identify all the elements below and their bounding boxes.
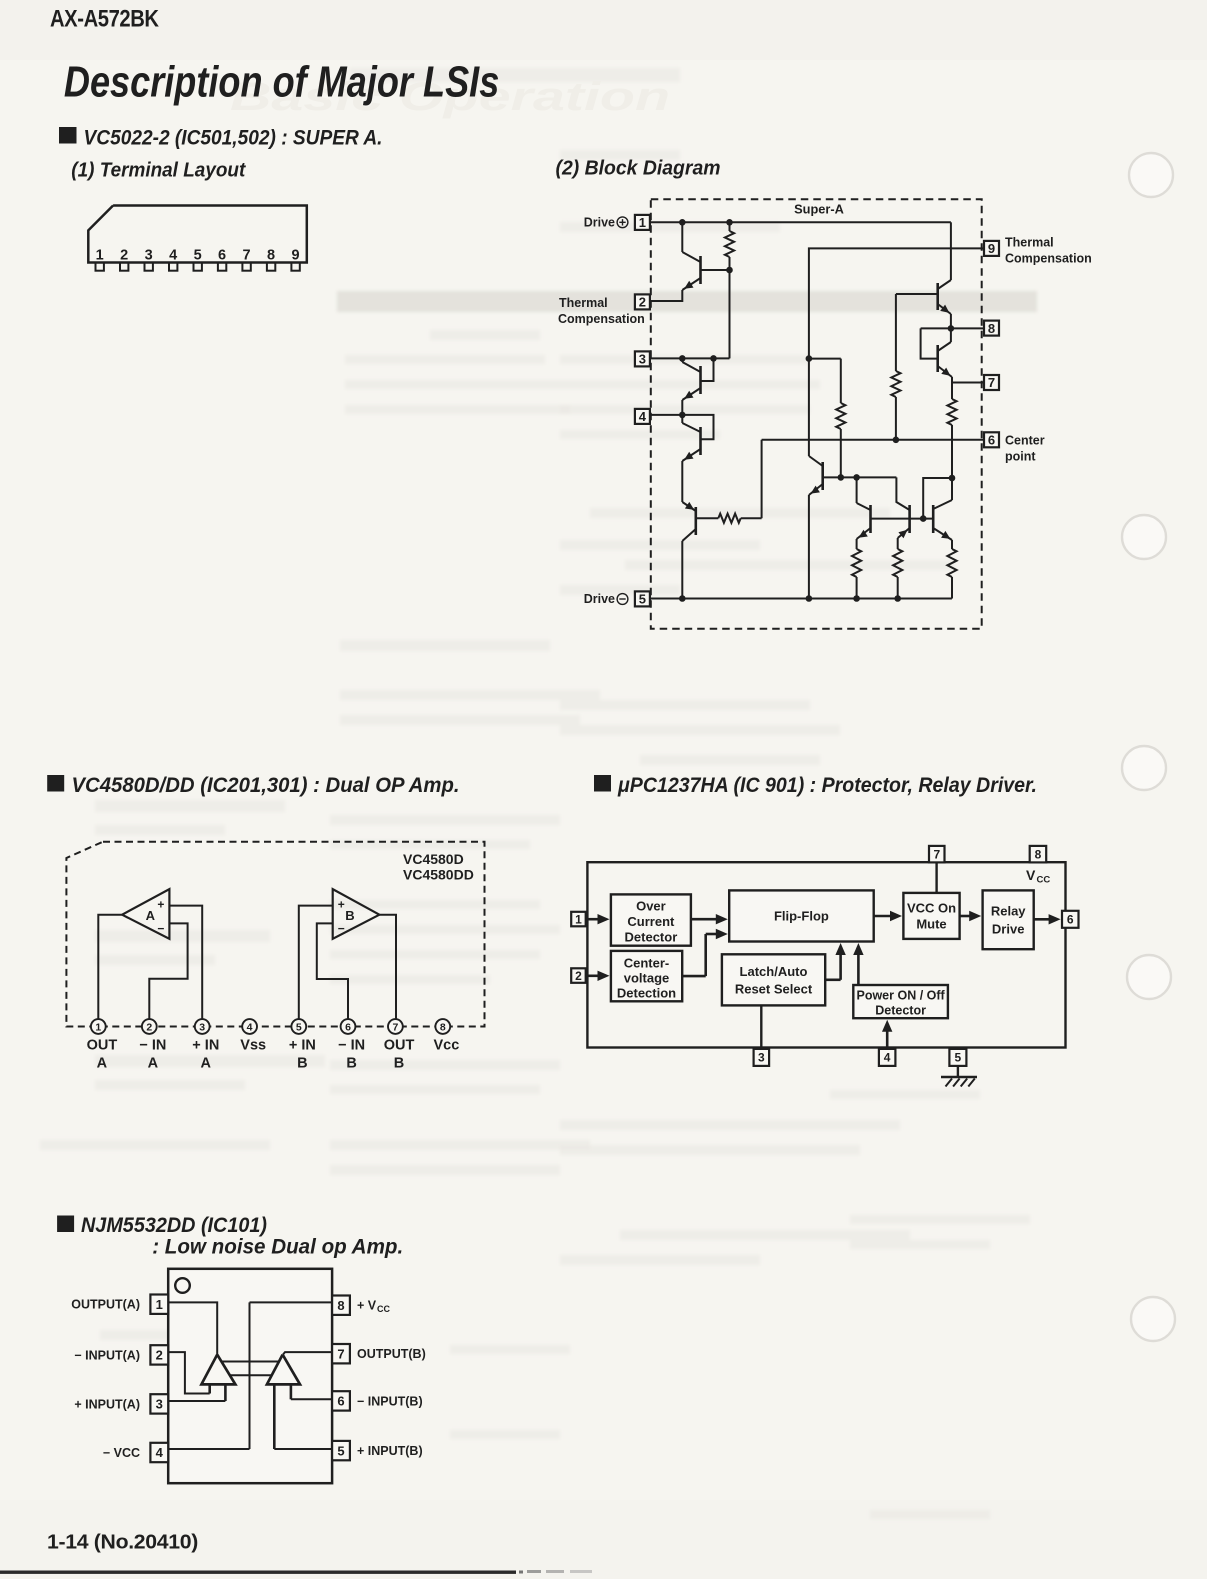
svg-text:Flip-Flop: Flip-Flop <box>774 909 829 924</box>
arrow pin2 to Center-voltage Detection <box>586 974 601 977</box>
ground symbol <box>941 1076 977 1078</box>
svg-text:Compensation: Compensation <box>1005 252 1092 266</box>
NJM5532 pin 1 box <box>150 1295 168 1314</box>
op-amp A triangle (points left) <box>122 889 169 939</box>
pin 3 lead stub (terminal layout) <box>145 263 153 271</box>
NJM5532 pin 4 box <box>150 1443 168 1462</box>
wire opA -in to pin2 <box>149 923 187 1019</box>
svg-text:VCC On: VCC On <box>907 900 956 915</box>
wire pin9 node jog to R3 <box>809 358 841 360</box>
resistor R2 (Q5 base to centre point) <box>895 294 897 371</box>
VC4580 pin 5 circle <box>291 1019 306 1034</box>
VC4580 pin 2 circle <box>142 1019 157 1034</box>
svg-text:Drive: Drive <box>992 922 1025 937</box>
pin 2 box <box>635 294 650 309</box>
arrow Center-voltage Detection to Flip-Flop <box>682 975 706 978</box>
svg-text:+: + <box>338 897 345 911</box>
svg-text:A: A <box>146 908 156 923</box>
svg-text:6: 6 <box>337 1394 344 1409</box>
svg-text:Compensation: Compensation <box>558 312 645 326</box>
svg-text:Reset Select: Reset Select <box>735 982 813 997</box>
wire pin3 <box>650 357 730 359</box>
wire pin5 to opB non-inverting input <box>274 1448 332 1450</box>
svg-text:+ V: + V <box>357 1299 377 1313</box>
svg-text:Current: Current <box>627 914 675 929</box>
wire pin8 <box>250 1301 333 1303</box>
svg-text:Power ON / Off: Power ON / Off <box>856 989 945 1003</box>
resistor R1 (pin1 to Q1 base) <box>729 222 731 231</box>
svg-text:− VCC: − VCC <box>103 1446 140 1460</box>
wire Q2 base loop to pin3 rail <box>701 358 714 381</box>
wire inter-amp bus <box>222 1361 280 1363</box>
wire opA output to pin1 <box>98 915 122 1020</box>
svg-text:OUT: OUT <box>384 1038 415 1054</box>
wire pin6 drop to R8 <box>761 440 763 518</box>
NJM5532 pin 6 box <box>332 1391 350 1410</box>
svg-text:B: B <box>346 1056 356 1072</box>
block VCC On Mute <box>903 893 959 939</box>
transistor Q3 (pin4 PNP) <box>681 415 683 423</box>
svg-text:4: 4 <box>247 1022 253 1034</box>
VC4580 pin 6 circle <box>341 1019 356 1034</box>
svg-text:NJM5532DD (IC101): NJM5532DD (IC101) <box>81 1214 267 1237</box>
svg-text:Super-A: Super-A <box>794 202 844 217</box>
transistor Q5 (upper right NPN, collector to pin1 rail) <box>936 283 939 310</box>
uPC pin 2 box <box>571 968 586 983</box>
resistor R5 (Q9 emitter) <box>856 539 858 549</box>
transistor Q9 (bottom-left NPN of output mirror) <box>856 477 858 503</box>
wire pin7 <box>952 382 984 384</box>
pin 2 lead stub (terminal layout) <box>120 263 128 271</box>
op-amp B triangle (points up) <box>267 1355 300 1385</box>
block Latch/Auto Reset Select <box>722 954 825 1005</box>
svg-text:− IN: − IN <box>338 1038 365 1054</box>
svg-text:7: 7 <box>392 1022 398 1034</box>
svg-text:8: 8 <box>337 1298 344 1313</box>
svg-text:1: 1 <box>639 215 646 230</box>
svg-text:point: point <box>1005 450 1036 464</box>
svg-text:2: 2 <box>156 1348 163 1363</box>
resistor R6 (Q8 emitter) <box>897 538 899 549</box>
transistor Q10 (bottom-right NPN, diode connected) <box>932 505 935 533</box>
pin 1 lead stub (terminal layout) <box>96 263 104 271</box>
svg-text:VC4580DD: VC4580DD <box>403 867 474 883</box>
wire Q8 collector drop <box>896 477 909 510</box>
NJM5532 pin 2 box <box>150 1345 168 1364</box>
pin 6 lead stub (terminal layout) <box>218 263 226 271</box>
pin 9 box <box>984 241 999 256</box>
pin 5 lead stub (terminal layout) <box>194 263 202 271</box>
VC4580 pin 4 circle <box>242 1019 257 1034</box>
VC4580 pin 1 circle <box>91 1019 106 1034</box>
svg-text:voltage: voltage <box>624 970 670 985</box>
uPC pin 7 box <box>929 846 945 863</box>
svg-text:AX-A572BK: AX-A572BK <box>50 6 159 33</box>
uPC pin 8 box <box>1030 846 1047 863</box>
wire diode tie jog <box>923 478 952 519</box>
wire opB -in to pin6 <box>317 923 348 1019</box>
wire opB output to pin7 <box>379 915 396 1020</box>
arrow Power ON/Off Detector to Flip-Flop <box>857 950 860 985</box>
svg-text:6: 6 <box>988 433 995 448</box>
op-amp B triangle (points right) <box>333 889 380 939</box>
wire pin5 bottom rail <box>650 598 952 600</box>
svg-text:V: V <box>1026 867 1036 883</box>
bottom scan bar <box>0 1571 516 1574</box>
svg-text:Drive: Drive <box>584 592 615 606</box>
VC4580 dashed package outline <box>66 842 484 1027</box>
svg-text:Thermal: Thermal <box>559 296 608 310</box>
wire Q7 base rail <box>823 476 897 478</box>
block Power ON/Off Detector <box>853 985 948 1018</box>
pin 8 lead stub (terminal layout) <box>267 263 275 271</box>
svg-text:3: 3 <box>156 1397 163 1412</box>
block Center-voltage Detection <box>611 951 682 1001</box>
block Relay Drive <box>983 890 1034 949</box>
NJM5532 pin 8 box <box>332 1296 350 1315</box>
svg-text:Vss: Vss <box>240 1038 266 1054</box>
wire Q1 base <box>701 269 730 271</box>
svg-text:Detector: Detector <box>625 930 678 945</box>
svg-text:2: 2 <box>575 969 582 983</box>
svg-text:4: 4 <box>156 1445 164 1460</box>
svg-text:+ INPUT(A): + INPUT(A) <box>74 1397 140 1411</box>
svg-text:5: 5 <box>296 1022 302 1034</box>
svg-text:6: 6 <box>1067 913 1074 927</box>
wire pin1 top rail <box>650 221 951 223</box>
svg-text:Description of Major LSIs: Description of Major LSIs <box>64 59 499 107</box>
arrow Relay Drive to pin 6 <box>1034 918 1052 921</box>
svg-text:1: 1 <box>156 1297 163 1312</box>
wire pin4 <box>650 414 683 416</box>
svg-text:7: 7 <box>243 248 251 264</box>
pin 4 lead stub (terminal layout) <box>169 263 177 271</box>
svg-text:A: A <box>148 1056 159 1072</box>
svg-text:Relay: Relay <box>991 904 1026 919</box>
svg-text:−: − <box>157 921 164 935</box>
svg-text:3: 3 <box>758 1051 765 1065</box>
wire opB +in to pin5 <box>299 906 333 1020</box>
resistor R3 (pin9 branch) <box>840 359 842 403</box>
svg-text:6: 6 <box>345 1022 351 1034</box>
wire pin2 <box>650 290 683 301</box>
wire pin3 to Latch/Auto Reset Select <box>760 1005 762 1049</box>
wire opA +in to pin3 <box>169 906 202 1020</box>
svg-text:Latch/Auto: Latch/Auto <box>740 964 808 979</box>
Super-A block dashed boundary <box>651 199 982 629</box>
svg-text:9: 9 <box>292 248 300 264</box>
svg-text:CC: CC <box>377 1304 390 1314</box>
uPC pin 4 box <box>879 1049 896 1066</box>
svg-text:(2) Block Diagram: (2) Block Diagram <box>556 157 721 180</box>
pin 7 box <box>984 375 999 390</box>
NJM5532 pin 5 box <box>332 1441 350 1460</box>
svg-text:Vcc: Vcc <box>433 1038 459 1054</box>
svg-text:2: 2 <box>120 248 128 264</box>
svg-text:6: 6 <box>218 248 226 264</box>
svg-text:+: + <box>157 897 164 911</box>
svg-text:OUTPUT(A): OUTPUT(A) <box>71 1298 140 1312</box>
svg-text:3: 3 <box>199 1022 205 1034</box>
svg-text:Center: Center <box>1005 434 1045 448</box>
wire pin8 <box>921 327 984 329</box>
svg-text:VC5022-2 (IC501,502) : SUPER A: VC5022-2 (IC501,502) : SUPER A. <box>84 127 383 150</box>
svg-text:5: 5 <box>639 592 646 607</box>
svg-text:A: A <box>201 1056 212 1072</box>
NJM5532 pin 3 box <box>150 1394 168 1413</box>
svg-text:7: 7 <box>933 848 940 862</box>
svg-text:: Low noise Dual op Amp.: : Low noise Dual op Amp. <box>152 1236 403 1259</box>
wire output mirror base rail <box>871 518 934 520</box>
svg-text:7: 7 <box>337 1346 344 1361</box>
NJM5532 pin 7 box <box>332 1344 350 1363</box>
opB input legs <box>273 1384 276 1449</box>
svg-text:2: 2 <box>146 1022 152 1034</box>
pin 9 lead stub (terminal layout) <box>291 263 299 271</box>
svg-text:1: 1 <box>575 912 582 926</box>
svg-text:− INPUT(A): − INPUT(A) <box>74 1348 140 1362</box>
svg-text:− IN: − IN <box>139 1038 166 1054</box>
svg-text:1: 1 <box>95 1022 101 1034</box>
svg-text:Detection: Detection <box>617 985 676 1000</box>
resistor R4 (pin7 node to lower node) <box>951 383 953 400</box>
transistor Q7 (tall left NPN, collector to pin9) <box>808 359 810 456</box>
uPC1237 outer box <box>587 862 1065 1047</box>
svg-text:A: A <box>97 1056 108 1072</box>
resistor R7 (Q10 emitter) <box>951 540 953 549</box>
svg-text:8: 8 <box>267 248 275 264</box>
wire pin3 to opA non-inverting input <box>168 1400 225 1402</box>
svg-text:B: B <box>345 908 354 923</box>
arrow pin4 to Power ON/Off Detector <box>886 1026 889 1049</box>
junction dots <box>679 219 686 226</box>
svg-text:B: B <box>394 1056 404 1072</box>
svg-text:4: 4 <box>169 248 177 264</box>
svg-text:CC: CC <box>1037 875 1051 886</box>
uPC pin 6 box <box>1062 911 1079 928</box>
wire Q1-base node down to pin3 rail <box>729 270 731 358</box>
svg-text:Thermal: Thermal <box>1005 236 1054 250</box>
wire pin1 to opA output <box>168 1302 217 1354</box>
svg-text:4: 4 <box>884 1051 891 1065</box>
pin 1 box <box>635 215 650 230</box>
wire Q3 base loop to pin4 rail <box>682 415 713 439</box>
svg-text:VC4580D: VC4580D <box>403 851 464 867</box>
svg-text:Mute: Mute <box>916 916 946 931</box>
resistor R8 (Q4 base) <box>696 517 719 519</box>
transistor Q1 (pins1/2/3 PNP) <box>681 222 683 252</box>
wire pin2 to opA inverting input <box>168 1352 210 1393</box>
wire pin4 <box>168 1448 249 1450</box>
arrow Flip-Flop to VCC On Mute <box>874 915 893 918</box>
pin 5 box <box>635 591 650 606</box>
block Over Current Detector <box>611 894 691 945</box>
svg-text:5: 5 <box>337 1443 344 1458</box>
svg-text:Detector: Detector <box>875 1004 926 1018</box>
wire centre rail pin8 to pin4 <box>249 1302 251 1449</box>
svg-text:Center-: Center- <box>624 955 670 970</box>
wire Q6 base loop from pin8 node <box>921 328 938 358</box>
VC4580 pin 3 circle <box>195 1019 210 1034</box>
pin 8 box <box>984 321 999 336</box>
svg-text:Over: Over <box>636 899 666 914</box>
svg-text:− INPUT(B): − INPUT(B) <box>357 1394 423 1408</box>
svg-text:8: 8 <box>1035 848 1042 862</box>
svg-text:−: − <box>338 921 345 935</box>
svg-text:μPC1237HA (IC 901) : Protector: μPC1237HA (IC 901) : Protector, Relay Dr… <box>617 774 1037 797</box>
svg-text:OUT: OUT <box>87 1038 118 1054</box>
VC4580 pin 8 circle <box>435 1019 450 1034</box>
wire pin7 to opB output <box>283 1352 332 1355</box>
opA input legs <box>208 1384 211 1393</box>
wire Q3 emitter to Q4 emitter <box>682 449 700 461</box>
svg-text:5: 5 <box>194 248 202 264</box>
svg-text:8: 8 <box>988 321 995 336</box>
wire Q5 base <box>896 293 938 295</box>
uPC pin 5 box <box>949 1049 966 1066</box>
svg-text:2: 2 <box>639 295 646 310</box>
transistor Q4 (output PNP, base via R8 to centre point) <box>694 507 697 535</box>
svg-text:+ INPUT(B): + INPUT(B) <box>357 1444 423 1458</box>
svg-text:7: 7 <box>988 375 995 390</box>
pin 7 lead stub (terminal layout) <box>242 263 250 271</box>
svg-text:9: 9 <box>988 241 995 256</box>
svg-text:4: 4 <box>639 409 647 424</box>
svg-text:(1) Terminal Layout: (1) Terminal Layout <box>71 159 246 182</box>
transistor Q6 (pin8/pin7 NPN) <box>936 345 939 372</box>
svg-text:8: 8 <box>440 1022 446 1034</box>
op-amp A triangle (points up) <box>201 1355 235 1385</box>
arrow Latch/Auto Reset Select to Flip-Flop <box>825 978 840 981</box>
wire pin1 rail drop to Q5 collector <box>950 222 952 280</box>
svg-text:+ IN: + IN <box>289 1038 316 1054</box>
svg-text:Drive: Drive <box>584 216 615 230</box>
wire pin5 to ground <box>957 1066 959 1077</box>
NJM5532 pin1 index circle <box>175 1278 190 1293</box>
svg-text:+ IN: + IN <box>192 1038 219 1054</box>
wire pin6 rail <box>762 439 984 441</box>
arrow Over Current Detector to Flip-Flop <box>691 918 719 921</box>
arrow VCC On Mute to Relay Drive <box>960 915 973 918</box>
transistor Q8 (bottom-middle PNP) <box>908 505 911 533</box>
svg-text:3: 3 <box>639 352 646 367</box>
pin 6 box <box>984 432 999 447</box>
wire pin9 <box>809 248 984 358</box>
pin 3 box <box>635 351 650 366</box>
uPC pin 1 box <box>571 912 586 927</box>
transistor Q2 (pin3/pin4 PNP) <box>681 358 683 362</box>
wire pin6 to opB inverting input <box>291 1398 332 1400</box>
NJM5532 IC body <box>168 1269 332 1483</box>
svg-text:OUTPUT(B): OUTPUT(B) <box>357 1347 426 1361</box>
svg-text:5: 5 <box>955 1051 962 1065</box>
uPC pin 3 box <box>754 1049 770 1066</box>
svg-text:VC4580D/DD (IC201,301) : Dual: VC4580D/DD (IC201,301) : Dual OP Amp. <box>72 774 460 797</box>
block Flip-Flop <box>729 890 874 941</box>
IC package VC5022-2 outline (terminal layout) <box>88 206 306 263</box>
pin 4 box <box>635 409 650 424</box>
svg-text:B: B <box>297 1056 307 1072</box>
svg-text:1: 1 <box>96 248 104 264</box>
arrow pin1 to Over Current Detector <box>586 918 601 921</box>
svg-text:1-14 (No.20410): 1-14 (No.20410) <box>47 1532 198 1554</box>
VC4580 pin 7 circle <box>388 1019 403 1034</box>
wire pin7 to VCC On Mute <box>935 862 937 893</box>
svg-text:3: 3 <box>145 248 153 264</box>
